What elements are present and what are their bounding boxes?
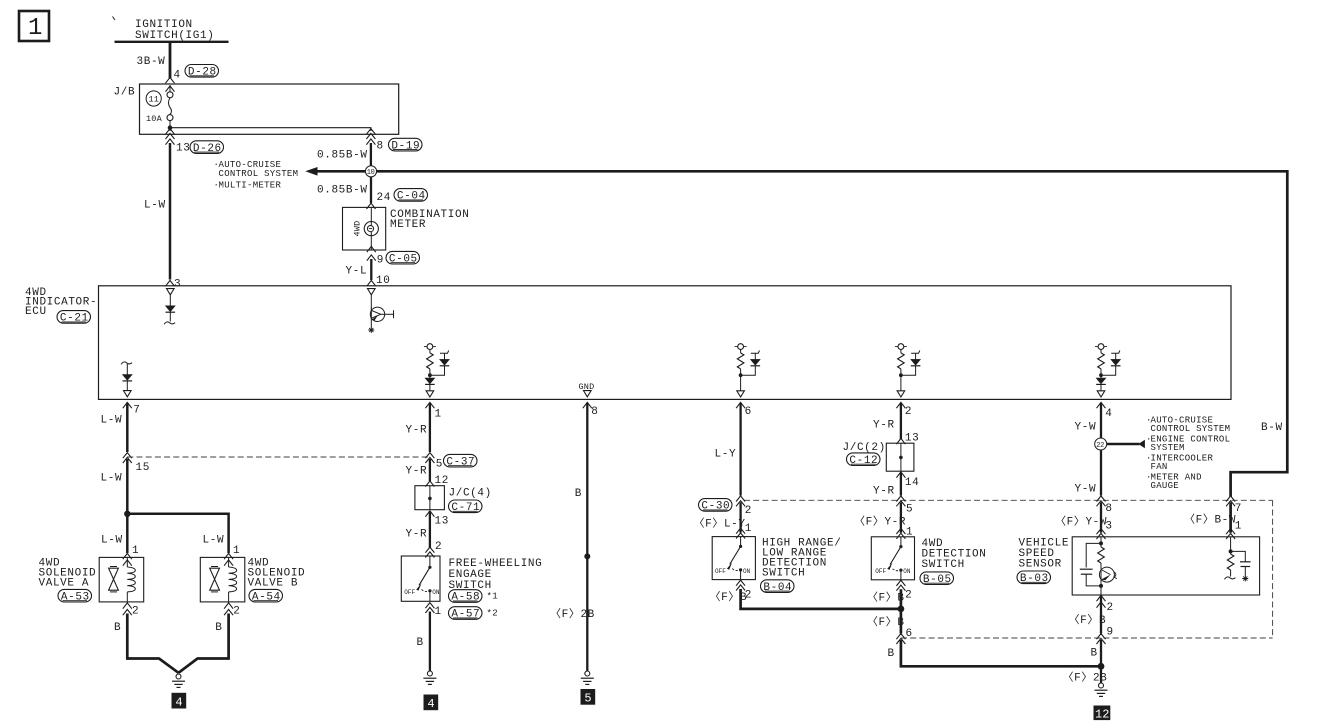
svg-text:〈F〉Y-W: 〈F〉Y-W xyxy=(1055,515,1107,529)
switch internals xyxy=(715,537,751,580)
connector chevrons switch bottom xyxy=(425,603,434,613)
wire L-W from 15 to branch node xyxy=(126,459,129,515)
svg-text:SWITCH: SWITCH xyxy=(762,568,805,580)
wire B from switch to ground xyxy=(429,612,431,672)
connector chevron at ECU pin 1 xyxy=(425,402,434,408)
connector chevron at ECU pin 6 xyxy=(736,402,745,408)
connector chevrons switch top xyxy=(896,528,905,538)
free-wheeling engage switch box xyxy=(401,556,440,601)
harness crossing chevrons at C-37 xyxy=(425,453,434,463)
svg-text:SENSOR: SENSOR xyxy=(1019,559,1062,571)
svg-text:〈F〉B: 〈F〉B xyxy=(867,591,905,605)
4WD detection switch box xyxy=(871,537,914,580)
svg-text:L-W: L-W xyxy=(144,200,166,212)
svg-text:4: 4 xyxy=(175,695,182,709)
svg-text:ON: ON xyxy=(903,568,911,575)
connector chevrons sensor bottom xyxy=(1097,595,1106,601)
svg-text:D-28: D-28 xyxy=(188,67,217,79)
svg-text:4: 4 xyxy=(174,70,181,82)
svg-text:10: 10 xyxy=(367,169,375,177)
wire (F)L-Y from C-30 to switch xyxy=(739,502,741,532)
svg-text:11: 11 xyxy=(149,95,160,105)
wire to valve A pin 1 xyxy=(126,514,129,553)
auto-cruise control system label xyxy=(214,160,299,179)
svg-text:3: 3 xyxy=(174,279,181,291)
connector D-28 xyxy=(185,65,219,79)
svg-text:2: 2 xyxy=(1107,602,1114,614)
switch label xyxy=(762,538,841,580)
wire across J/B to pin 8 branch xyxy=(170,128,371,131)
svg-text:SYSTEM: SYSTEM xyxy=(1151,443,1185,453)
svg-text:ECU: ECU xyxy=(25,306,47,318)
svg-text:B-03: B-03 xyxy=(1020,573,1049,585)
wire (F)Y-R from crossing to switch xyxy=(900,502,902,532)
connector C-71 xyxy=(449,500,483,514)
valve A internals: hourglass valve symbol xyxy=(109,567,119,592)
connector B-04 xyxy=(761,580,795,594)
combination meter box xyxy=(343,207,386,250)
harness crossing chevrons pin 5 xyxy=(896,496,905,506)
svg-text:10A: 10A xyxy=(146,114,163,124)
wire Y-W from node 22 to crossing 8 xyxy=(1100,450,1102,496)
wire 0.85B-W from pin 8 to node 10 xyxy=(370,143,372,166)
ECU internal driver at pin 4 xyxy=(1095,344,1120,397)
ignition switch (IG1) source label xyxy=(135,19,214,42)
svg-text:OFF: OFF xyxy=(404,589,415,596)
wire Y-L from meter to ECU pin 10 xyxy=(370,259,372,280)
svg-text:L-W: L-W xyxy=(101,415,123,427)
svg-text:3: 3 xyxy=(1105,521,1112,533)
svg-text:Y-R: Y-R xyxy=(406,466,428,478)
svg-text:8: 8 xyxy=(591,406,598,418)
connector C-37 xyxy=(444,454,478,468)
4WD indicator lamp xyxy=(364,222,378,236)
harness crossing chevrons pin 9 xyxy=(1097,634,1106,644)
svg-text:24: 24 xyxy=(377,192,391,204)
connector chevrons valve A bottom xyxy=(123,603,132,609)
wire (F)Y-W to sensor xyxy=(1100,502,1102,532)
svg-text:〈F〉L-Y: 〈F〉L-Y xyxy=(694,517,746,531)
svg-text:OFF: OFF xyxy=(715,568,726,575)
svg-text:2: 2 xyxy=(905,590,912,602)
svg-text:L-Y: L-Y xyxy=(715,449,737,461)
wire (F)B-W from crossing to sensor xyxy=(1229,502,1232,532)
wire 3B-W from ignition switch to J/B pin 4 xyxy=(169,42,172,79)
svg-text:*1: *1 xyxy=(487,592,498,602)
svg-text:OFF: OFF xyxy=(875,568,886,575)
connector B-05 xyxy=(920,572,954,586)
ground symbol GND wire xyxy=(581,671,594,684)
svg-text:J/B: J/B xyxy=(114,87,136,99)
svg-text:15: 15 xyxy=(136,462,150,474)
svg-text:SWITCH(IG1): SWITCH(IG1) xyxy=(135,30,214,42)
sensor label xyxy=(1019,538,1070,571)
svg-text:A-57: A-57 xyxy=(451,609,480,621)
svg-text:12: 12 xyxy=(1095,707,1109,721)
svg-text:2: 2 xyxy=(132,606,139,618)
svg-text:B: B xyxy=(215,622,222,634)
ground symbol free-wheeling switch xyxy=(423,671,436,684)
arrow to systems list xyxy=(1107,440,1145,449)
svg-text:〈F〉2B: 〈F〉2B xyxy=(550,607,595,621)
4WD indicator ECU box C-21 xyxy=(99,286,1232,400)
svg-text:D-19: D-19 xyxy=(391,140,420,152)
svg-text:2: 2 xyxy=(435,541,442,553)
svg-text:C-37: C-37 xyxy=(446,456,475,468)
switch internals xyxy=(404,556,440,601)
svg-text:C-05: C-05 xyxy=(389,253,418,265)
4WD solenoid valve B box xyxy=(200,557,245,602)
svg-text:A-53: A-53 xyxy=(61,591,90,603)
connector chevrons at J/B bottom left xyxy=(166,129,175,139)
dashed boundary bottom edge xyxy=(901,637,1273,639)
connector chevron at meter top xyxy=(367,203,376,209)
vehicle speed sensor box xyxy=(1072,537,1259,595)
svg-text:B: B xyxy=(1091,648,1098,660)
valve A coil xyxy=(127,557,135,602)
wire (F)B from sensor down xyxy=(1100,595,1102,634)
svg-text:MULTI-METER: MULTI-METER xyxy=(219,181,282,191)
svg-text:C-04: C-04 xyxy=(397,191,426,203)
ECU internal diode at pin 7 xyxy=(121,362,132,397)
wire B from crossing to ground run xyxy=(901,640,1101,666)
fuse 10A xyxy=(146,85,173,124)
svg-text:1: 1 xyxy=(28,15,42,42)
connector chevrons switch bottom xyxy=(736,580,745,590)
wire B from pin 8 to ground xyxy=(586,403,588,671)
connector C-21 xyxy=(57,311,91,325)
wire from fuse to node xyxy=(169,121,171,131)
wire Y-R from C-37 to J/C(4) xyxy=(429,459,431,481)
svg-text:B-04: B-04 xyxy=(763,582,792,594)
ECU name label xyxy=(25,287,97,318)
wire Y-R pin 2 down to J/C(2) xyxy=(900,403,902,439)
svg-text:L-W: L-W xyxy=(101,473,123,485)
node 22 circle xyxy=(1095,438,1107,450)
svg-text:CONTROL SYSTEM: CONTROL SYSTEM xyxy=(219,169,299,179)
connector C-30 xyxy=(699,499,733,513)
joint connector J/C(2) box xyxy=(886,443,914,471)
svg-text:METER: METER xyxy=(390,219,426,231)
harness crossing chevrons at pin 6 xyxy=(896,634,905,644)
svg-text:5: 5 xyxy=(584,692,591,706)
wire (F)B from B-04 to junction with B-05 xyxy=(741,589,901,609)
wire L-W from pin 13 to ECU pin 3 xyxy=(169,143,172,280)
svg-text:B-05: B-05 xyxy=(923,574,952,586)
wire L-Y pin 6 down to C-30 xyxy=(739,403,741,496)
node 10 circle xyxy=(365,166,376,177)
valve B internals: hourglass valve symbol xyxy=(210,567,220,592)
svg-text:6: 6 xyxy=(745,406,752,418)
svg-text:A-54: A-54 xyxy=(252,591,281,603)
svg-text:1: 1 xyxy=(745,523,752,535)
ground symbol solenoid valves xyxy=(172,674,185,687)
switch internals xyxy=(875,537,911,580)
svg-text:ON: ON xyxy=(432,589,440,596)
wire through meter xyxy=(370,207,372,250)
svg-text:VALVE B: VALVE B xyxy=(248,578,299,590)
valve B coil xyxy=(229,557,237,602)
svg-text:7: 7 xyxy=(133,405,140,417)
ignition bus bar xyxy=(115,41,229,43)
ground tag 4 xyxy=(424,695,439,712)
svg-text:8: 8 xyxy=(377,141,384,153)
connector chevron at ECU pin 2 xyxy=(896,402,905,408)
svg-text:1: 1 xyxy=(1235,521,1242,533)
svg-text:13: 13 xyxy=(176,142,190,154)
svg-text:FAN: FAN xyxy=(1151,462,1168,472)
wire Y-R from J/C(2) to B-05 xyxy=(900,473,902,496)
svg-text:6: 6 xyxy=(906,628,913,640)
wire B-W from node 10 to far right and down to sensor pin 7 xyxy=(377,171,1288,496)
joint connector J/C(4) box xyxy=(415,486,445,510)
svg-text:B: B xyxy=(888,648,895,660)
svg-text:C-12: C-12 xyxy=(849,455,878,467)
svg-text:1: 1 xyxy=(435,606,442,618)
dashed boundary right edge xyxy=(1272,500,1274,638)
connector B-03 xyxy=(1017,571,1051,585)
ECU internal diode at pin 3 xyxy=(164,289,175,325)
svg-text:C-30: C-30 xyxy=(701,501,730,513)
harness crossing chevrons at 15 xyxy=(123,453,132,463)
wire L-W pin 7 down to harness crossing 15 xyxy=(126,403,129,452)
junction node with B-04 wire xyxy=(898,606,905,613)
branch node to valve B xyxy=(124,511,130,517)
wire branch to valve B xyxy=(127,514,228,553)
svg-text:L-W: L-W xyxy=(203,535,225,547)
svg-text:22: 22 xyxy=(1096,442,1104,450)
svg-text:1: 1 xyxy=(132,545,139,557)
connector chevrons valve B top xyxy=(224,553,233,559)
svg-text:B: B xyxy=(114,622,121,634)
connector chevrons valve A top xyxy=(123,553,132,559)
svg-text:〈F〉Y-R: 〈F〉Y-R xyxy=(854,515,906,529)
wire B valve A to ground xyxy=(127,614,178,673)
connector A-58 xyxy=(449,590,498,604)
switch label xyxy=(922,538,987,571)
svg-text:Y-W: Y-W xyxy=(1075,422,1097,434)
connector chevron at ECU pin 8 xyxy=(583,402,592,408)
connector chevrons switch top xyxy=(736,528,745,538)
multi-meter label xyxy=(214,181,282,191)
connector A-57 xyxy=(449,607,498,621)
junction block J/B box xyxy=(140,84,399,134)
svg-text:GAUGE: GAUGE xyxy=(1151,481,1180,491)
svg-text:Y-R: Y-R xyxy=(873,420,895,432)
high range/low range detection switch box xyxy=(712,537,755,580)
svg-text:2: 2 xyxy=(905,406,912,418)
wire Y-R from J/C(4) to switch xyxy=(429,511,431,548)
connector chevrons at J/B bottom right pin 8 xyxy=(366,129,375,139)
wire B valve B to ground xyxy=(179,614,229,673)
ground tag 12 xyxy=(1094,706,1111,722)
wire (F)B from B-05 through junction down to B run xyxy=(900,589,903,633)
harness crossing chevrons at C-30 xyxy=(736,496,745,506)
stray tick mark near title xyxy=(113,17,116,21)
svg-text:Y-W: Y-W xyxy=(1075,484,1097,496)
ground symbol vehicle speed sensor xyxy=(1095,683,1108,696)
svg-text:L-W: L-W xyxy=(101,535,123,547)
connector chevrons at meter bottom xyxy=(367,246,376,252)
svg-text:9: 9 xyxy=(377,255,384,267)
4WD solenoid valve A box xyxy=(99,557,144,602)
dashed harness boundary line xyxy=(127,456,430,458)
systems list labels xyxy=(1146,416,1230,492)
svg-text:B-W: B-W xyxy=(1261,422,1283,434)
connector chevron at J/C(4) bottom xyxy=(425,511,434,517)
svg-text:1: 1 xyxy=(435,409,442,421)
valve A label xyxy=(39,558,97,590)
connector chevrons sensor top right xyxy=(1226,529,1235,539)
svg-text:4: 4 xyxy=(1105,408,1112,420)
ECU internal driver at pin 1 xyxy=(424,344,449,397)
svg-text:Y-R: Y-R xyxy=(406,529,428,541)
wire Y-R pin 1 down to C-37 xyxy=(429,403,431,452)
svg-text:1: 1 xyxy=(233,545,240,557)
svg-text:〈F〉B: 〈F〉B xyxy=(867,615,905,629)
svg-text:SWITCH: SWITCH xyxy=(922,559,965,571)
svg-text:CONTROL SYSTEM: CONTROL SYSTEM xyxy=(1151,424,1231,434)
connector C-05 xyxy=(386,251,420,265)
svg-text:9: 9 xyxy=(1107,627,1114,639)
wire B from crossing to ground xyxy=(1100,640,1102,683)
junction node with switch B run xyxy=(1098,663,1105,670)
combination meter label xyxy=(390,209,469,231)
wire Y-W pin 4 down to node 22 xyxy=(1100,403,1102,439)
connector chevron at ECU pin 10 xyxy=(367,280,376,286)
ground tag 5 xyxy=(581,689,596,706)
ECU internal transistor at pin 10 xyxy=(368,289,394,333)
svg-text:ON: ON xyxy=(743,568,751,575)
svg-text:0.85B-W: 0.85B-W xyxy=(317,150,368,162)
svg-text:2: 2 xyxy=(233,606,240,618)
connector chevron at J/C(2) bottom xyxy=(896,472,905,478)
node in J/B xyxy=(168,125,173,130)
svg-text:13: 13 xyxy=(435,516,449,528)
connector chevron at J/C(4) top xyxy=(425,481,434,487)
svg-text:B: B xyxy=(575,488,582,500)
svg-text:D-26: D-26 xyxy=(193,143,222,155)
switch label xyxy=(449,558,543,592)
connector chevron at ECU pin 3 xyxy=(166,280,175,286)
svg-text:3B-W: 3B-W xyxy=(137,56,166,68)
sensor internals left: pull-up resistor, capacitor, output transistor xyxy=(1080,537,1117,595)
svg-text:*2: *2 xyxy=(487,609,498,619)
page number box 1 xyxy=(19,11,49,42)
svg-text:4: 4 xyxy=(427,697,434,711)
svg-text:2: 2 xyxy=(745,505,752,517)
ground tag 4 xyxy=(172,693,187,710)
svg-text:5: 5 xyxy=(906,504,913,516)
svg-text:〈F〉2B: 〈F〉2B xyxy=(1063,671,1108,685)
connector chevrons sensor top left xyxy=(1097,529,1106,539)
svg-text:VALVE A: VALVE A xyxy=(39,578,90,590)
valve B label xyxy=(248,558,306,590)
connector chevrons switch top xyxy=(425,547,434,557)
connector A-54 xyxy=(249,589,283,603)
connector chevron at J/C(2) top xyxy=(896,438,905,444)
ECU internal driver at pin 2 xyxy=(895,344,920,397)
svg-text:Y-R: Y-R xyxy=(406,425,428,437)
svg-text:C-21: C-21 xyxy=(60,313,89,325)
connector chevron at ECU pin 7 xyxy=(123,402,132,408)
connector chevrons valve B bottom xyxy=(224,603,233,609)
wire 0.85B-W from node 10 to combination meter pin 24 xyxy=(370,177,372,203)
svg-text:Y-L: Y-L xyxy=(346,266,368,278)
splice node on B wire xyxy=(584,553,590,559)
svg-text:8: 8 xyxy=(1105,503,1112,515)
connector chevron at ECU pin 4 xyxy=(1097,402,1106,408)
ECU internal driver at pin 6 xyxy=(735,344,761,397)
svg-text:A-58: A-58 xyxy=(451,592,480,604)
connector D-26 xyxy=(190,141,224,155)
connector chevrons switch bottom xyxy=(896,580,905,590)
svg-text:7: 7 xyxy=(1235,503,1242,515)
harness crossing chevrons pin 8 xyxy=(1097,496,1106,506)
svg-text:Y-R: Y-R xyxy=(873,486,895,498)
svg-text:5: 5 xyxy=(436,459,443,471)
connector D-19 xyxy=(389,138,423,152)
svg-text:J/C(4): J/C(4) xyxy=(449,488,492,500)
GND label above pin 8 xyxy=(579,382,595,397)
arrow to auto-cruise / multi-meter xyxy=(305,167,365,176)
svg-text:〈F〉B: 〈F〉B xyxy=(1069,613,1107,627)
connector C-12 xyxy=(847,453,881,467)
svg-text:C-71: C-71 xyxy=(451,502,480,514)
svg-text:4WD: 4WD xyxy=(353,221,363,237)
svg-text:14: 14 xyxy=(905,477,919,489)
dashed boundary top edge xyxy=(744,499,1273,501)
wire (F)B-W right branch into sensor xyxy=(1226,496,1235,506)
fuse circuit number 11 xyxy=(146,91,161,106)
connector A-53 xyxy=(58,589,92,603)
connector chevrons at J/B top xyxy=(166,77,175,83)
sensor internals right: resistor and capacitor to ground xyxy=(1224,537,1250,582)
svg-text:〈F〉B-W: 〈F〉B-W xyxy=(1184,513,1236,527)
svg-text:J/C(2): J/C(2) xyxy=(843,442,886,454)
svg-text:0.85B-W: 0.85B-W xyxy=(317,185,368,197)
svg-text:B: B xyxy=(417,637,424,649)
connector C-04 xyxy=(394,189,428,203)
